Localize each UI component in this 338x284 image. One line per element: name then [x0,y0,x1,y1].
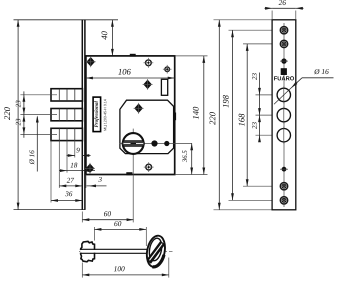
plate rivet diamond top [281,58,286,63]
tab on body bottom edge [126,172,132,175]
plate screw hole top 1 [280,27,287,34]
dimension 23 23 bolt spacing [23,91,25,137]
plate screw hole top 2 [280,40,287,47]
key hole 3 front view [277,129,290,142]
lock body outline [86,56,175,175]
deadbolt 3 [51,128,82,140]
dimension 106 body width [86,77,175,79]
screw boss bottom of body [146,164,152,170]
dimension 60 key [94,228,146,230]
label diameter 16 bolts [36,117,38,172]
deadbolt 1 [51,89,82,101]
dimension 220 left view [17,20,19,210]
pin dot right of hub [151,140,157,146]
rivet diamond at 18 dim [87,165,93,172]
extension lines 198 [229,29,281,31]
dimension 168 [246,44,248,186]
dimension 26 plate width [272,7,296,9]
screw boss top-right of body [165,67,170,72]
tab on body right edge [174,113,177,121]
key hole 1 front view [277,88,290,101]
key hole 2 front view [277,108,290,121]
key centerline [79,250,173,252]
tab on body top edge [130,54,136,57]
Professional label [93,97,101,132]
plate screw hole bottom 1 [280,183,287,190]
dimension 27 [59,185,82,187]
dimension 9 [67,155,75,157]
extension lines below bolts [74,141,76,158]
dimension 100 key length [82,274,169,276]
dimension 198 [232,30,234,200]
FUARO logo text [274,76,294,80]
extension lines 220 right [214,19,273,21]
faceplate front view outline [272,20,296,210]
label side text [104,99,107,130]
hub vertical centerline / extension to 60 dim [132,129,134,223]
deadbolt 2 [51,109,82,121]
extension body top to 140 [175,55,208,57]
extension line bottom of faceplate [14,209,86,211]
extension lines 168 [243,43,281,45]
dimension 220 right view [218,20,220,210]
bolt centerline extensions left [20,94,57,96]
dimension 3 [87,185,107,187]
plate screw hole bottom 2 [280,197,287,204]
hub horizontal centerline [120,143,193,145]
screw boss top-left of body [146,60,152,66]
dimension 40 [111,20,113,56]
extension hub centerline to 36.5 [175,174,208,176]
inner cover plate [120,100,174,153]
FUARO logo square [281,68,287,75]
pin dot 2 right of hub [164,141,169,146]
rivet diamond above inner plate [144,81,150,88]
dimension 140 [203,56,205,175]
extension line top of faceplate [14,19,119,21]
rivet diamond on inner plate [135,105,141,112]
dimension 60 backset [82,219,133,221]
dimension 36 [51,200,82,202]
label diameter 16 right [302,77,334,79]
key bit [81,241,95,261]
key shaft [80,250,146,253]
faceplate edge-on (double line) [81,20,83,210]
rivet diamond near faceplate top [88,58,94,65]
dimension 23 23 right [259,73,261,138]
plate vertical centerline [283,23,285,207]
plate rivet dot bottom [282,167,287,172]
dimension 36.5 [191,143,193,174]
extension lines big holes [256,94,292,96]
dimension 18 [59,170,95,172]
key hub circle [123,133,144,154]
key hub slot [122,141,144,147]
slot opening in body [161,79,167,95]
